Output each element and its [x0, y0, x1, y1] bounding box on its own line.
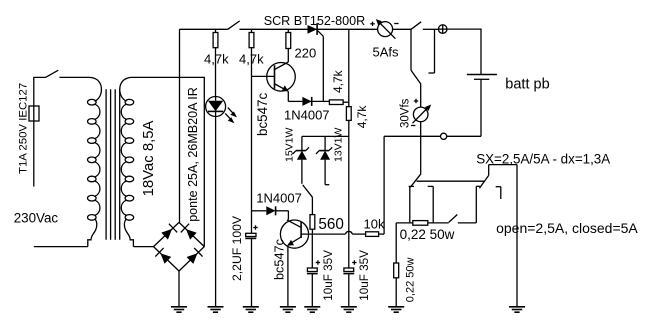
svg-text:0,22 50w: 0,22 50w: [405, 257, 417, 302]
svg-text:open=2,5A, closed=5A: open=2,5A, closed=5A: [496, 220, 638, 236]
svg-text:0,22 50w: 0,22 50w: [400, 227, 455, 242]
svg-text:5Afs: 5Afs: [373, 44, 400, 59]
svg-text:18Vac 8,5A: 18Vac 8,5A: [141, 120, 157, 196]
ground C2: [304, 307, 320, 312]
LED D6: [206, 97, 237, 308]
resistor R4 4,7k horizontal: [329, 100, 348, 105]
selector blade 2: [479, 165, 517, 307]
ground C1: [243, 307, 259, 312]
transformer T1 primary winding: [88, 77, 102, 246]
resistor R2 4,7k: [249, 29, 254, 233]
transistor Q1 bc547c: [252, 62, 296, 101]
SCR BT152-800R: [308, 23, 378, 101]
top rail wire: [180, 21, 308, 29]
svg-text:bc547c: bc547c: [255, 93, 270, 136]
voltmeter plus mark: [414, 99, 418, 103]
zener Z1 15V1W: [293, 136, 309, 183]
selector contact 2a: [428, 186, 434, 223]
bridge rectifier D5 ponte: [154, 222, 205, 271]
svg-text:SCR BT152-800R: SCR BT152-800R: [264, 14, 366, 28]
voltmeter select contact B: [429, 29, 435, 73]
transformer T1 core: [106, 89, 120, 240]
wire selector cross: [417, 180, 485, 182]
svg-text:4,7k: 4,7k: [239, 52, 264, 67]
svg-text:30Vfs: 30Vfs: [400, 98, 412, 128]
ground right: [509, 307, 525, 312]
ammeter plus mark: [370, 22, 374, 26]
mains switch S1: [34, 70, 90, 106]
svg-text:10uF 35V: 10uF 35V: [358, 250, 371, 301]
wire terminal to battery: [447, 29, 481, 74]
ground bridge: [171, 307, 187, 312]
resistor R5 4,7k vertical: [346, 107, 351, 268]
terminal plus: [438, 25, 447, 34]
svg-text:bc547c: bc547c: [273, 238, 287, 280]
resistor R3 220: [286, 29, 291, 62]
resistor R9 0,22 50w vertical: [394, 223, 399, 307]
ground R9: [388, 307, 404, 312]
wire bridge minus down: [178, 271, 180, 307]
svg-text:batt pb: batt pb: [505, 77, 549, 93]
ammeter M1 5Afs: [376, 19, 396, 39]
svg-text:SX=2,5A/5A - dx=1,3A: SX=2,5A/5A - dx=1,3A: [476, 152, 610, 167]
svg-text:230Vac: 230Vac: [14, 211, 59, 226]
diode D3 1N4007 top: [288, 97, 329, 106]
svg-text:10k: 10k: [364, 217, 385, 232]
svg-text:4,7k: 4,7k: [204, 52, 229, 67]
resistor R8 0,22 50w horizontal: [396, 221, 449, 226]
switch zener select blade: [303, 185, 313, 197]
dx stub contact: [496, 187, 501, 199]
ground C3: [341, 307, 357, 312]
wire mains bottom: [34, 246, 88, 248]
transformer T1 secondary winding: [120, 77, 134, 246]
selector contact 2b: [476, 186, 480, 223]
voltmeter select contact A: [411, 29, 421, 84]
svg-text:13V1W: 13V1W: [333, 127, 345, 162]
wire hop over cathode line: [346, 231, 353, 234]
wire zener top node: [302, 135, 349, 137]
svg-text:4,7k: 4,7k: [331, 69, 345, 93]
resistor R1 4,7k: [213, 29, 218, 96]
ground LED: [208, 307, 224, 312]
svg-text:560: 560: [318, 216, 344, 233]
rail ammeter to battery switch: [393, 22, 439, 30]
resistor R6 560: [310, 197, 315, 234]
capacitor C1 2,2UF 100V: [245, 225, 257, 307]
zener Z2 13V1W: [316, 136, 332, 184]
svg-text:1N4007: 1N4007: [256, 190, 302, 205]
wire minus rail right: [447, 135, 481, 137]
svg-text:T1A 250V IEC127: T1A 250V IEC127: [18, 83, 30, 174]
switch open/closed blade: [449, 215, 477, 223]
svg-text:220: 220: [295, 45, 317, 60]
wire bridge plus up: [179, 29, 181, 222]
wire minus rail left: [384, 135, 440, 137]
terminal minus: [441, 133, 447, 139]
wire cathode branch down: [348, 29, 350, 106]
battery batt pb: [467, 75, 497, 137]
capacitor C2 10uF 35V: [307, 234, 320, 307]
transistor Q2 bc547c: [280, 211, 345, 307]
svg-text:15V1W: 15V1W: [284, 127, 296, 162]
voltmeter M2 30Vfs: [413, 84, 432, 173]
SX selector blade: [409, 174, 421, 223]
capacitor C3 10uF 35V: [343, 260, 356, 307]
wire secondary top to bridge: [132, 77, 205, 246]
resistor R7 10k: [352, 136, 384, 236]
svg-text:1N4007: 1N4007: [284, 108, 330, 123]
svg-text:10uF 35V: 10uF 35V: [322, 250, 335, 301]
ground Q2 emitter: [280, 307, 296, 312]
svg-text:2,2UF 100V: 2,2UF 100V: [230, 215, 244, 281]
voltmeter minus mark: [411, 125, 415, 127]
ammeter minus mark: [394, 23, 398, 25]
wire secondary bottom to bridge: [133, 246, 153, 248]
svg-text:4,7k: 4,7k: [355, 105, 369, 129]
diode D4 1N4007 bottom: [252, 206, 289, 215]
svg-text:ponte 25A, 26MB20A IR: ponte 25A, 26MB20A IR: [186, 87, 200, 222]
fuse F1: [29, 106, 39, 187]
